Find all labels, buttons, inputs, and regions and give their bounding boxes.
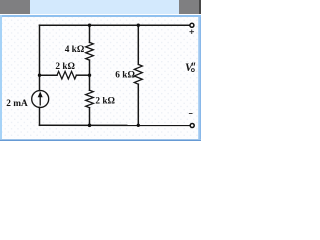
junction: top rail / 4k branch: [88, 24, 91, 27]
label: + sign: [190, 30, 194, 34]
wire: 4k branch upper lead: [89, 25, 91, 42]
wire: left rail lower segment: [39, 107, 41, 125]
decorative top bar: light blue strip: [30, 0, 178, 14]
label: - sign: [189, 113, 192, 115]
junction: top rail / 6k branch: [137, 24, 140, 27]
wire: 6k branch lower lead: [137, 84, 139, 125]
junction: bottom rail / 6k branch: [137, 124, 140, 127]
junction: left rail / middle rail: [38, 74, 41, 77]
wire: 4k branch lower lead: [89, 60, 91, 75]
wire: 2k vertical branch lower lead: [89, 108, 91, 126]
resistor R1 2 kOhm horizontal zigzag: [57, 71, 76, 79]
terminal: + output (open circle): [190, 23, 194, 27]
wire: 6k branch upper lead: [137, 25, 139, 64]
decorative frame line under bar: [1, 15, 201, 17]
dotted paper texture: [2, 17, 198, 138]
svg-text:6 kΩ: 6 kΩ: [115, 71, 135, 81]
svg-text:2 mA: 2 mA: [6, 99, 28, 109]
current source I1 2 mA (circle): [32, 91, 49, 108]
decorative frame bottom edge: [0, 139, 201, 141]
terminal: - output (open circle): [190, 124, 194, 128]
decorative top bar: gray left block: [0, 0, 30, 14]
decorative top bar: gray right block: [179, 0, 199, 14]
wire: middle rail left segment: [40, 74, 58, 76]
svg-text:4 kΩ: 4 kΩ: [65, 45, 85, 55]
decorative dark edge top-right: [199, 0, 201, 14]
decorative frame left edge: [0, 15, 2, 140]
label: Vo'' output voltage: [185, 62, 195, 74]
wire: left rail upper segment: [39, 25, 41, 90]
wire: middle rail right segment: [76, 74, 89, 76]
current source I1 arrow: [38, 91, 43, 105]
junction: middle rail / 4k-2k node: [88, 74, 91, 77]
resistor R2 4 kOhm vertical zigzag: [86, 42, 94, 60]
wire: bottom rail to - terminal: [40, 124, 190, 126]
wire: top rail from left corner to + terminal: [40, 24, 190, 26]
svg-text:2 kΩ: 2 kΩ: [55, 62, 75, 72]
svg-text:2 kΩ: 2 kΩ: [95, 97, 115, 107]
decorative frame right edge: [198, 17, 201, 141]
resistor R4 6 kOhm vertical zigzag: [134, 64, 142, 84]
resistor R3 2 kOhm vertical zigzag: [86, 90, 94, 108]
junction: bottom rail / 2k branch: [88, 124, 92, 128]
wire: 2k vertical branch upper lead: [89, 75, 91, 90]
